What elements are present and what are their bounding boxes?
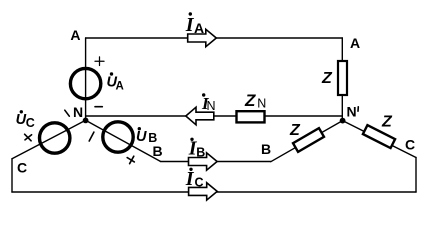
svg-text:A: A (116, 81, 124, 93)
svg-text:Z: Z (381, 114, 393, 131)
svg-text:Z: Z (321, 70, 333, 87)
svg-text:U: U (136, 129, 147, 145)
svg-text:A: A (194, 20, 204, 36)
svg-text:C: C (26, 116, 35, 130)
svg-text:N: N (207, 99, 216, 113)
svg-text:B: B (153, 143, 163, 159)
svg-text:A: A (350, 35, 360, 51)
svg-text:N: N (257, 97, 266, 111)
svg-text:B: B (261, 141, 271, 157)
svg-text:Z: Z (244, 91, 256, 110)
svg-text:N: N (73, 104, 83, 120)
svg-text:A: A (70, 27, 80, 43)
svg-text:Z: Z (289, 122, 301, 139)
svg-text:I: I (185, 168, 195, 190)
svg-text:C: C (195, 176, 204, 190)
svg-text:B: B (148, 131, 157, 145)
svg-text:C: C (17, 160, 27, 176)
svg-text:B: B (196, 145, 205, 159)
svg-text:N: N (347, 104, 357, 120)
svg-text:C: C (405, 137, 415, 153)
